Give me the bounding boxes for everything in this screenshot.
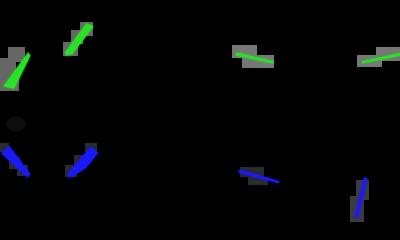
halo around wedge N1: [0, 143, 28, 176]
chlorine wedge bond Cl2: [65, 23, 94, 55]
nitrogen bond N3: [239, 170, 280, 184]
nitrogen wedge bond N1: [1, 146, 30, 178]
nitrogen bond N4: [355, 177, 368, 217]
halo around bond N3: [240, 167, 268, 185]
halo around bond Cl1: [0, 47, 25, 91]
halo around bond Cl3: [232, 45, 274, 68]
halo around bond N4: [350, 180, 369, 222]
halo around wedge N2: [65, 143, 97, 177]
chlorine bond Cl4: [362, 53, 400, 64]
faint atom label ghost: [6, 116, 26, 132]
nitrogen wedge bond N2: [67, 147, 98, 178]
chlorine wedge bond Cl1: [3, 52, 30, 89]
chlorine bond Cl3: [236, 52, 274, 63]
halo around bond Cl2: [63, 22, 93, 56]
halo around bond Cl4: [357, 47, 400, 67]
